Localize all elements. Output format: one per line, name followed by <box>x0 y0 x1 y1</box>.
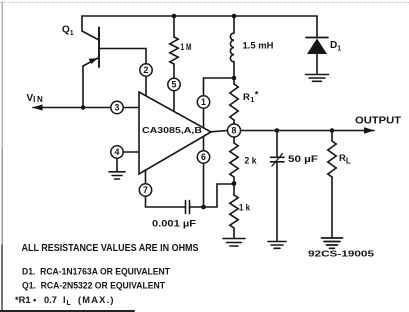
svg-text:Q1: Q1 <box>62 25 74 38</box>
svg-text:•: • <box>33 295 36 305</box>
svg-text:1 k: 1 k <box>239 203 251 213</box>
svg-text:1 M: 1 M <box>181 42 192 52</box>
svg-text:R1*: R1* <box>243 90 259 105</box>
svg-text:RL: RL <box>339 153 351 166</box>
svg-text:1: 1 <box>201 97 206 107</box>
svg-text:3: 3 <box>115 102 120 112</box>
svg-text:VIN: VIN <box>27 93 45 104</box>
svg-text:2: 2 <box>144 65 149 75</box>
svg-text:1.5 mH: 1.5 mH <box>243 41 274 51</box>
svg-text:8: 8 <box>232 125 237 135</box>
svg-text:*R1: *R1 <box>15 295 31 305</box>
svg-text:I: I <box>63 295 66 305</box>
svg-text:D1. RCA-1N1763A OR EQUIVALENT: D1. RCA-1N1763A OR EQUIVALENT <box>22 267 170 277</box>
svg-text:L: L <box>67 300 72 307</box>
svg-text:Q1. RCA-2N5322 OR EQUIVALENT: Q1. RCA-2N5322 OR EQUIVALENT <box>22 281 165 291</box>
svg-text:5: 5 <box>172 79 177 89</box>
svg-text:6: 6 <box>201 152 206 162</box>
svg-text:2 k: 2 k <box>245 156 258 166</box>
svg-text:CA3085,A,B: CA3085,A,B <box>142 126 202 135</box>
svg-text:4: 4 <box>115 147 120 157</box>
svg-text:(MAX.): (MAX.) <box>78 295 115 305</box>
svg-text:92CS-19005: 92CS-19005 <box>308 250 375 259</box>
svg-text:7: 7 <box>143 185 148 195</box>
svg-text:50 µF: 50 µF <box>288 154 319 164</box>
svg-text:D1: D1 <box>330 40 341 53</box>
svg-text:OUTPUT: OUTPUT <box>355 116 401 127</box>
svg-text:ALL RESISTANCE VALUES ARE IN O: ALL RESISTANCE VALUES ARE IN OHMS <box>22 243 199 254</box>
svg-text:0.001 µF: 0.001 µF <box>152 219 197 229</box>
svg-text:0.7: 0.7 <box>44 295 57 305</box>
